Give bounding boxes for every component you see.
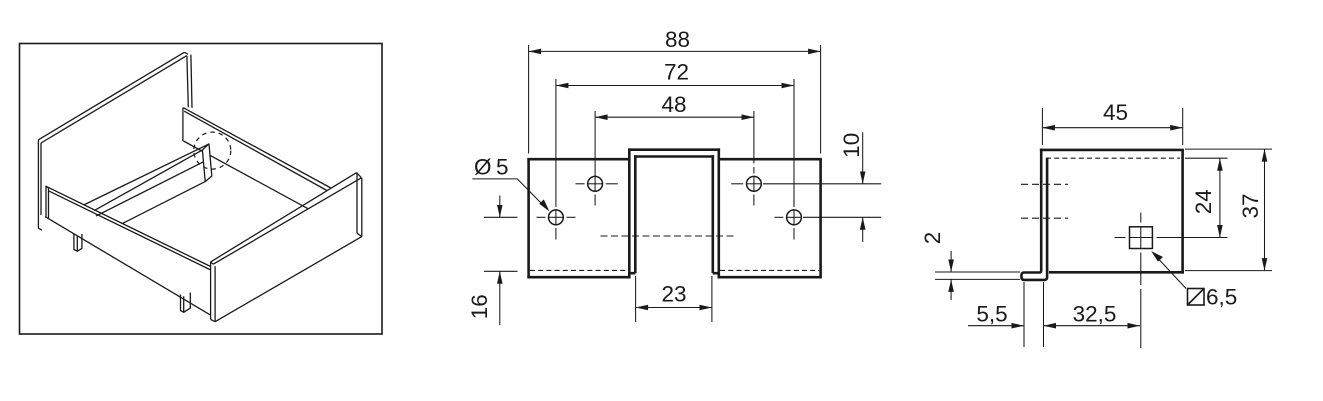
detail circle (dashed): [194, 132, 231, 169]
svg-text:16: 16: [467, 294, 492, 319]
svg-text:48: 48: [661, 92, 686, 117]
channel outer-right line: [717, 148, 720, 277]
svg-text:45: 45: [1103, 100, 1128, 125]
hidden hole centerline lower (dashed): [1021, 217, 1068, 219]
svg-text:72: 72: [664, 60, 689, 85]
dim texts middle view: [467, 27, 864, 319]
svg-text:37: 37: [1238, 193, 1263, 218]
centerline cross hole inner-left: [588, 183, 602, 185]
channel outer-left line: [628, 148, 631, 277]
bracket right edge: [819, 159, 822, 277]
headboard front-top edge: [41, 56, 187, 143]
headboard back-left edge: [37, 140, 39, 229]
border frame: [20, 44, 383, 335]
svg-text:2: 2: [920, 232, 945, 245]
dim 5,5 line with outside arrow: [968, 325, 1024, 327]
half cross rail mid edge: [96, 162, 203, 216]
cross rail end cap: [202, 144, 211, 182]
headboard right edge back: [191, 55, 192, 108]
bracket bottom edge left wing: [527, 276, 630, 279]
half cross rail bottom edge: [122, 182, 205, 224]
square symbol for 6,5: [1188, 289, 1205, 306]
dim 88 extension lines: [528, 45, 530, 154]
channel right step jog: [713, 272, 719, 275]
svg-text:6,5: 6,5: [1206, 285, 1237, 310]
dim 45 line: [1042, 127, 1182, 129]
leader line square hole: [1153, 253, 1186, 289]
svg-text:10: 10: [839, 133, 864, 158]
channel inner-left line: [634, 155, 637, 273]
dim 32,5 line: [1044, 325, 1140, 327]
dim 48 line: [595, 116, 754, 118]
hole inner-left: [588, 176, 603, 191]
svg-text:88: 88: [665, 27, 690, 52]
dim 72 line: [556, 85, 794, 87]
footboard bottom edge: [215, 237, 362, 322]
bracket bottom edge right wing: [718, 276, 822, 279]
right rail top-front edge: [184, 111, 327, 190]
headboard right edge front: [187, 56, 188, 108]
bracket top edge right wing: [719, 158, 822, 161]
left rail bottom edge: [45, 217, 211, 316]
footboard front-top edge: [213, 178, 361, 264]
dim texts right view: [920, 100, 1263, 327]
centerline cross hole inner-right: [747, 183, 761, 185]
channel left step jog: [629, 272, 635, 275]
svg-text:23: 23: [661, 282, 686, 307]
dim 45 extension lines: [1041, 108, 1043, 145]
footboard bottom-right corner edge: [357, 233, 362, 236]
centerline cross hole outer-left: [549, 216, 563, 218]
footboard top-left corner edge: [211, 262, 214, 264]
hidden top fold line (dashed): [1046, 157, 1180, 159]
footboard front-left edge: [214, 266, 216, 322]
dim 88 line: [529, 50, 821, 52]
dim 23 line: [636, 307, 712, 309]
hole outer-right: [787, 210, 802, 225]
channel outer top edge: [628, 148, 720, 151]
left rail top-front edge: [49, 191, 211, 270]
hidden centerline through channel (dashed): [601, 235, 735, 237]
dim 72 extension lines: [555, 79, 557, 207]
square hole vertical centerline: [1140, 213, 1142, 223]
square hole: [1130, 227, 1153, 249]
channel inner-right line: [711, 155, 714, 273]
half cross rail top-back edge: [84, 144, 209, 205]
right rail bottom edge (behind center-rail cap gap): [184, 141, 203, 151]
front leg under left rail: [181, 295, 184, 313]
headboard back-top edge: [38, 52, 184, 140]
svg-text:Ø 5: Ø 5: [474, 155, 509, 180]
channel inner top edge: [634, 155, 714, 158]
footboard top-right corner edge: [357, 173, 362, 178]
dim 16 line with outside arrows: [499, 196, 501, 218]
side view top edge: [1040, 149, 1184, 152]
dim 37 line: [1264, 149, 1266, 271]
hidden hole centerline upper (dashed): [1021, 183, 1068, 185]
side view right edge: [1181, 150, 1184, 274]
footboard back-left edge: [210, 262, 212, 320]
dim 24 top extension: [1185, 157, 1228, 159]
dim 2 extension lines: [935, 271, 1020, 273]
rear leg under left rail: [74, 234, 77, 251]
headboard top-right corner edge: [184, 52, 188, 54]
svg-text:24: 24: [1191, 189, 1216, 214]
hidden bottom fold line right wing (dashed): [720, 269, 819, 271]
leader line for hole diameter: [472, 179, 547, 209]
left rail top-back edge: [46, 186, 211, 266]
footboard back-top edge: [211, 173, 357, 262]
footboard front-right edge: [361, 178, 363, 237]
side view inner-left edge and foot bottom: [1024, 158, 1047, 280]
dim 23 extension lines: [635, 276, 637, 322]
dim 37 top extension: [1185, 148, 1272, 150]
hole inner-right: [747, 176, 762, 191]
dim 5,5 extension lines: [1023, 282, 1025, 347]
foot rounded left end: [1021, 273, 1024, 280]
centerline cross hole outer-right: [787, 216, 801, 218]
footboard bottom-left corner edge: [211, 319, 216, 321]
headboard bottom-left corner edge: [38, 228, 42, 230]
bracket top edge left wing: [527, 158, 629, 161]
side view bottom edge: [1049, 271, 1184, 274]
bracket outline left edge: [527, 159, 530, 277]
side view outer-left edge and foot top: [1024, 149, 1042, 273]
left rail end cap: [46, 186, 49, 218]
right rail top-back edge: [183, 108, 331, 188]
dim 16 extension lines: [484, 216, 518, 218]
svg-text:5,5: 5,5: [976, 302, 1007, 327]
right rail end edge: [182, 108, 184, 141]
hidden bottom fold line left wing (dashed): [530, 269, 628, 271]
hole outer-left: [549, 210, 564, 225]
footboard back-right edge: [356, 173, 358, 233]
dim 2 line with outside arrows: [950, 251, 952, 272]
dim 10 line with outside arrows: [862, 132, 864, 184]
square hole horizontal centerline: [1115, 237, 1126, 239]
headboard front-left edge: [40, 143, 42, 215]
dim 37 bottom extension: [1185, 270, 1272, 272]
front leg side face: [184, 293, 191, 313]
half cross rail top-front edge: [94, 150, 202, 211]
dim 24 bottom extension: [1157, 237, 1228, 239]
dim 10 extension lines: [763, 183, 881, 185]
dim 24 line: [1219, 158, 1221, 237]
rear leg side face: [77, 234, 82, 251]
svg-text:32,5: 32,5: [1073, 302, 1117, 327]
dim 48 extension lines: [594, 111, 596, 177]
